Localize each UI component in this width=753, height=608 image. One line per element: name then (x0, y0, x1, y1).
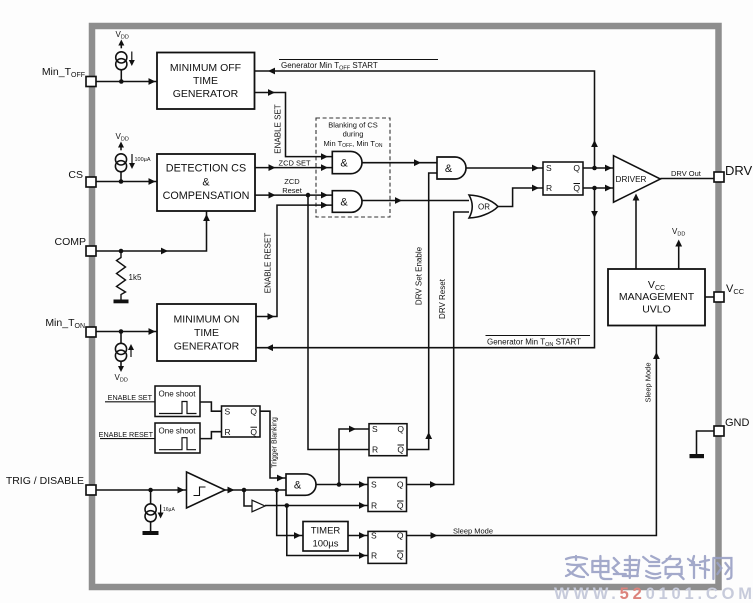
svg-text:S: S (225, 406, 231, 416)
svg-text:Q: Q (397, 424, 404, 434)
wire FF1 Qbar to driver (583, 185, 614, 192)
svg-text:ENABLE SET: ENABLE SET (274, 104, 283, 153)
svg-text:Trigger Blanking: Trigger Blanking (272, 417, 279, 468)
wire VCC management to driver supply (633, 194, 640, 270)
wire VCC management to VDD rail (675, 240, 682, 270)
schmitt trigger buffer U6 (187, 472, 226, 508)
wire FF5 Q Sleep Mode to VCC management (407, 326, 660, 539)
svg-text:Q: Q (250, 406, 257, 416)
wire branch to inverter U7 (244, 490, 252, 506)
svg-text:DRV Reset: DRV Reset (438, 278, 447, 319)
svg-text:CS: CS (68, 169, 83, 181)
net label ENABLE SET (one shot 1 input) (105, 393, 155, 402)
wire OR U4 output to FF1 R (498, 185, 543, 207)
pin CS (68, 169, 96, 187)
wire Generator Min TOFF START (Q to MIN OFF gen) (255, 68, 598, 168)
net label Generator Min TOFF START (279, 60, 438, 72)
svg-text:DRV: DRV (725, 163, 753, 178)
resistor R1 1k5 (COMP) (117, 251, 142, 300)
svg-text:MANAGEMENT: MANAGEMENT (619, 291, 695, 303)
AND gate U1 (blanking set) (332, 151, 362, 173)
current source I4 (TRIG pull-down) (145, 490, 175, 531)
current source I2 (VDD to CS, 100uA) (115, 132, 150, 182)
svg-text:1k5: 1k5 (129, 273, 142, 282)
svg-text:TIMER: TIMER (311, 526, 341, 537)
net label Generator Min TON START (486, 336, 591, 348)
svg-text:GENERATOR: GENERATOR (173, 88, 239, 100)
wire schmitt output to AND U5 (225, 487, 286, 494)
svg-text:&: & (340, 158, 348, 170)
svg-text:Q: Q (397, 551, 404, 561)
wire Min_TON pin to MIN ON generator (96, 328, 157, 335)
pin VCC (714, 283, 745, 302)
wire AND U3 output to FF1 S (466, 165, 543, 172)
block DETECTION CS & COMPENSATION (157, 154, 255, 211)
svg-text:during: during (343, 130, 364, 139)
svg-text:GENERATOR: GENERATOR (174, 341, 240, 353)
svg-text:100µA: 100µA (135, 157, 151, 163)
svg-text:R: R (225, 427, 231, 437)
pin Min_TOFF (42, 66, 96, 87)
svg-text:Q: Q (397, 531, 404, 541)
svg-text:&: & (445, 163, 453, 175)
svg-text:COMP: COMP (55, 236, 87, 248)
svg-text:Reset: Reset (282, 186, 303, 195)
svg-text:R: R (371, 501, 377, 511)
wire ZCD Reset drop to FF3 R input (308, 195, 369, 449)
svg-text:One shoot: One shoot (159, 390, 197, 399)
wire inverter output to FF4 R (265, 502, 368, 509)
svg-text:Generator Min TON START: Generator Min TON START (487, 338, 581, 348)
svg-text:OR: OR (478, 203, 490, 212)
SR latch FF2 (one shot) (222, 406, 261, 437)
wire COMP pin to detection block (96, 211, 210, 254)
wire Min_TOFF pin to MIN OFF generator (96, 78, 157, 85)
block one shot 2 (ENABLE RESET) (155, 423, 200, 453)
pin DRV (714, 163, 753, 182)
svg-text:Q: Q (397, 480, 404, 490)
svg-text:ENABLE RESET: ENABLE RESET (264, 233, 273, 294)
current source I3 (Min_TON to VDD) (115, 332, 135, 384)
SR latch FF1 (main PWM) (543, 162, 583, 195)
wire AND U5 output to FF4 S (316, 481, 368, 488)
pin GND (714, 417, 750, 436)
svg-text:GND: GND (725, 417, 750, 429)
svg-text:Generator Min TOFF START: Generator Min TOFF START (281, 61, 378, 71)
wire AND U2 output to OR U4 (362, 197, 469, 204)
AND gate U2 (blanking reset) (332, 191, 362, 213)
svg-text:UVLO: UVLO (642, 304, 671, 316)
svg-text:WWW.520101.COM: WWW.520101.COM (554, 585, 753, 603)
svg-text:ZCD: ZCD (284, 177, 300, 186)
svg-text:Q: Q (397, 501, 404, 511)
wire ENABLE SET (MIN OFF gen to AND U1) (255, 89, 332, 160)
wire driver output to DRV pin (660, 178, 714, 180)
block VCC MANAGEMENT UVLO (608, 269, 705, 326)
svg-text:ENABLE RESET: ENABLE RESET (99, 430, 154, 439)
svg-text:COMPENSATION: COMPENSATION (163, 190, 250, 202)
watermark Chinese characters (566, 556, 731, 579)
wire TIMER output to FF5 S (348, 532, 368, 539)
block one shot 1 (ENABLE SET) (155, 386, 200, 417)
wire TRIG pin to schmitt buffer (96, 487, 187, 494)
wire branch to FF5 R (287, 506, 368, 559)
svg-text:Blanking of CS: Blanking of CS (328, 121, 378, 130)
pin COMP (55, 236, 97, 256)
pin TRIG / DISABLE (6, 475, 96, 495)
wire GND pin to ground (697, 431, 715, 454)
net label ENABLE RESET (one shot 2 input) (99, 430, 155, 439)
wire ENABLE RESET (MIN ON gen to AND U2) (256, 202, 332, 320)
svg-text:TRIG / DISABLE: TRIG / DISABLE (6, 475, 84, 487)
AND gate U3 (DRV set) (437, 157, 466, 179)
inverter U7 (252, 500, 265, 512)
wire FF1 Q to driver (583, 165, 614, 172)
svg-text:MINIMUM OFF: MINIMUM OFF (170, 62, 241, 74)
svg-text:R: R (371, 551, 377, 561)
wire one shot 1 to FF2 S (200, 402, 222, 411)
svg-text:Sleep Mode: Sleep Mode (453, 527, 493, 536)
wire FF4 Q DRV Reset to OR U4 (407, 212, 470, 488)
wire VCC block to VCC pin (705, 296, 714, 298)
svg-text:R: R (546, 183, 552, 193)
svg-text:S: S (372, 424, 378, 434)
svg-text:Q: Q (250, 427, 257, 437)
wire ZCD Reset (detection to AND U2 and FF3 R) (255, 192, 332, 199)
svg-text:&: & (340, 197, 348, 209)
current source I1 (VDD to Min_TOFF) (116, 30, 135, 82)
block MINIMUM ON TIME GENERATOR (157, 304, 256, 361)
pin Min_TON (45, 317, 96, 337)
AND gate U5 (trigger) (286, 474, 316, 495)
block TIMER 100us (303, 522, 348, 552)
block MINIMUM OFF TIME GENERATOR (157, 53, 255, 110)
svg-text:Q: Q (573, 163, 580, 173)
IC boundary frame (92, 26, 719, 587)
SR latch FF3 (zcd arm) (369, 424, 407, 456)
wire AND U1 output to AND U3 (362, 159, 437, 166)
svg-text:One shoot: One shoot (159, 427, 197, 436)
ground (GND pin) (690, 454, 705, 458)
driver amplifier (614, 156, 661, 203)
wire Generator Min TON START (vertical run and to MIN ON gen) (256, 188, 598, 351)
net label ZCD Reset (282, 177, 303, 195)
svg-text:MINIMUM ON: MINIMUM ON (174, 314, 240, 326)
OR gate U4 (DRV reset) (469, 195, 498, 218)
svg-text:S: S (371, 480, 377, 490)
svg-text:R: R (372, 445, 378, 455)
svg-text:TIME: TIME (193, 75, 218, 87)
svg-text:ZCD SET: ZCD SET (279, 159, 312, 168)
svg-text:&: & (294, 480, 302, 492)
svg-text:DRV Out: DRV Out (671, 169, 702, 178)
wire FF3 Qbar DRV Set Enable to AND U3 (407, 173, 437, 450)
wire one shot 2 to FF2 R (200, 432, 222, 439)
svg-text:S: S (371, 531, 377, 541)
svg-text:DRIVER: DRIVER (616, 175, 647, 184)
SR latch FF4 (trigger) (368, 478, 407, 512)
svg-text:Q: Q (397, 445, 404, 455)
svg-text:DRV Set Enable: DRV Set Enable (415, 246, 424, 305)
svg-text:TIME: TIME (194, 327, 219, 339)
SR latch FF5 (sleep) (368, 531, 407, 564)
ground (TRIG current source) (143, 531, 159, 535)
wire branch AND U5 output to FF3 S (339, 426, 369, 485)
svg-text:&: & (202, 177, 210, 189)
wire ZCD SET (detection to AND U1) (255, 164, 332, 171)
svg-text:Min TOFF, Min TON: Min TOFF, Min TON (324, 139, 383, 149)
svg-text:16µA: 16µA (163, 507, 175, 513)
wire FF2 Q trigger blanking to AND U5 (260, 411, 286, 481)
svg-text:Sleep Mode: Sleep Mode (644, 362, 653, 402)
wire CS pin to detection block (96, 178, 157, 185)
blanking of CS dashed box (316, 118, 390, 217)
svg-text:ENABLE SET: ENABLE SET (108, 393, 153, 402)
svg-text:100µs: 100µs (312, 539, 338, 550)
ground (R1) (114, 300, 129, 304)
svg-text:Q: Q (573, 183, 580, 193)
wire branch to TIMER input (277, 490, 303, 539)
svg-text:DETECTION CS: DETECTION CS (166, 163, 246, 175)
svg-text:S: S (546, 163, 552, 173)
